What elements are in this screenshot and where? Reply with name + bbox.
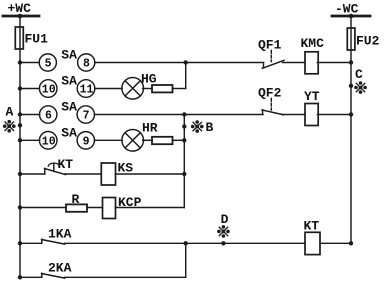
- svg-text:5: 5: [45, 58, 52, 71]
- svg-text:11: 11: [80, 84, 94, 97]
- svg-text:-WC: -WC: [335, 2, 359, 17]
- svg-text:B: B: [206, 120, 214, 135]
- resistor row4: [152, 137, 173, 144]
- wire row6 mid: [87, 207, 103, 209]
- relay contact 1KA: [42, 227, 72, 245]
- wire row2 lamp to resistor: [143, 88, 152, 90]
- svg-text:6: 6: [45, 110, 52, 123]
- switch SA contact 10b: [39, 132, 57, 150]
- switch SA contact 6: [40, 106, 57, 123]
- wire row4 lamp to resistor: [143, 139, 152, 141]
- wire row1 middle: [95, 60, 264, 64]
- svg-text:HR: HR: [142, 121, 158, 136]
- relay coil KCP: [103, 195, 142, 219]
- time relay contact KT: [45, 157, 74, 175]
- wire row8 right: [65, 276, 186, 278]
- svg-text:KS: KS: [118, 161, 134, 176]
- wire row7 middle: [65, 241, 306, 245]
- resistor row2: [152, 85, 173, 92]
- svg-text:SA: SA: [61, 100, 77, 115]
- node D: [217, 212, 230, 246]
- switch SA contact 7: [77, 106, 94, 123]
- svg-text:7: 7: [83, 110, 90, 123]
- wire row4 left: [18, 138, 40, 142]
- svg-text:10: 10: [42, 135, 56, 148]
- svg-text:8: 8: [83, 58, 90, 71]
- node B: [182, 120, 213, 135]
- wire row7 right: [320, 241, 353, 245]
- lamp HG: [122, 72, 157, 100]
- breaker aux contact QF2: [258, 86, 305, 115]
- wire row1 left: [18, 60, 39, 64]
- wire row7 left: [18, 241, 42, 245]
- relay contact 2KA: [42, 261, 72, 279]
- wire right bus vertical: [350, 16, 352, 243]
- wire row3 middle: [95, 112, 264, 116]
- switch SA contact 8: [78, 54, 95, 71]
- wire row1 right: [317, 60, 353, 64]
- node +WC bus bar: [3, 1, 39, 18]
- wire row6 left: [18, 205, 66, 209]
- wire row5 left: [18, 172, 45, 176]
- wire row6 right: [116, 207, 185, 209]
- resistor R: [66, 192, 87, 212]
- switch SA contact 11: [77, 80, 95, 98]
- wire row5 mid: [65, 173, 102, 175]
- wire row3 right: [318, 112, 354, 116]
- svg-text:FU2: FU2: [356, 33, 380, 48]
- svg-text:FU1: FU1: [25, 32, 49, 47]
- node -WC bus bar: [332, 2, 370, 19]
- wire row4 mid: [95, 139, 123, 141]
- wire middle vertical row3 to row6: [183, 115, 185, 208]
- svg-text:A: A: [6, 105, 14, 120]
- svg-text:10: 10: [42, 84, 56, 97]
- time relay coil KT: [304, 219, 321, 255]
- switch SA contact 9: [77, 132, 94, 149]
- svg-text:SA: SA: [61, 48, 77, 63]
- wire row8 to row7 vertical: [185, 243, 187, 277]
- svg-text:SA: SA: [61, 125, 77, 140]
- relay coil KS: [101, 161, 133, 186]
- switch SA contact 10: [39, 80, 57, 98]
- wire row2 left: [18, 86, 40, 90]
- wire row2 right: [173, 88, 186, 90]
- breaker aux contact QF1: [258, 38, 305, 69]
- svg-text:2KA: 2KA: [48, 261, 72, 276]
- electromagnet coil YT: [304, 89, 320, 126]
- wire left bus vertical: [19, 16, 21, 278]
- node A: [3, 105, 22, 133]
- contactor coil KMC: [301, 36, 325, 74]
- svg-text:+WC: +WC: [8, 1, 32, 16]
- fuse FU1: [15, 27, 48, 49]
- node C: [349, 67, 367, 94]
- wire row3 left: [18, 112, 40, 116]
- wire row4 right: [173, 138, 187, 142]
- svg-text:9: 9: [83, 135, 90, 148]
- wire row2 mid: [95, 88, 122, 90]
- svg-text:KT: KT: [304, 219, 320, 234]
- switch SA contact 5: [39, 54, 56, 71]
- svg-text:YT: YT: [304, 89, 320, 104]
- svg-text:KMC: KMC: [301, 36, 325, 51]
- svg-text:C: C: [355, 67, 363, 82]
- svg-text:SA: SA: [61, 74, 77, 89]
- svg-text:1KA: 1KA: [48, 227, 72, 242]
- svg-text:QF2: QF2: [258, 86, 282, 101]
- fuse FU2: [347, 28, 379, 50]
- lamp HR: [122, 121, 158, 152]
- wire row5 right: [116, 172, 187, 176]
- svg-text:QF1: QF1: [258, 38, 282, 53]
- svg-text:D: D: [221, 212, 229, 227]
- wire row2 to row1 vertical: [185, 63, 187, 89]
- svg-text:KT: KT: [58, 157, 74, 172]
- wire row8 left: [18, 275, 42, 279]
- svg-text:R: R: [72, 192, 80, 207]
